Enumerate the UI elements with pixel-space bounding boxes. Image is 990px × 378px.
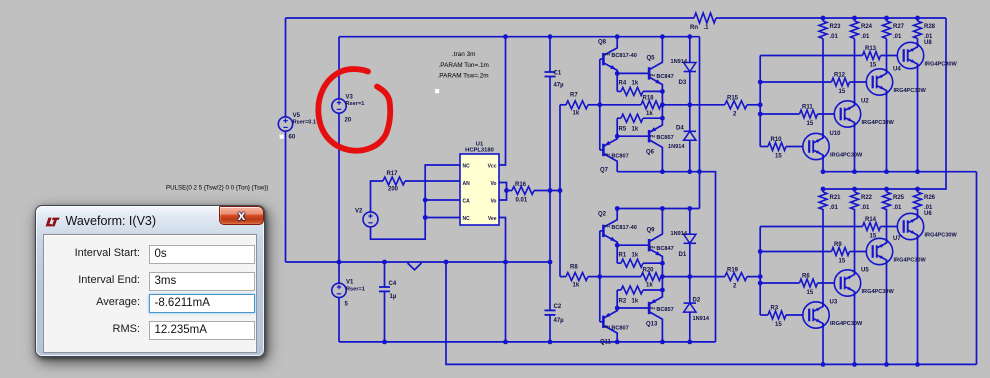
svg-text:15: 15	[807, 290, 814, 296]
label U6 value	[925, 233, 958, 239]
wire Q11 base stub	[600, 321, 604, 323]
wire emitter U4	[886, 91, 888, 172]
junction mid rail / drop	[444, 260, 449, 265]
resistor R22	[851, 189, 859, 210]
svg-text:AN: AN	[463, 181, 471, 187]
junction node A	[615, 243, 620, 248]
junction mid rail / Vee	[503, 260, 508, 265]
label D2 value	[693, 316, 710, 322]
label V5 value	[289, 135, 296, 141]
label R19 value	[733, 283, 737, 289]
wire collector U7	[886, 209, 888, 243]
label R1	[619, 252, 639, 258]
wire gate lead R11	[818, 113, 835, 115]
pin Vo bottom	[490, 199, 496, 205]
svg-text:1k: 1k	[632, 127, 639, 133]
svg-text:1N914: 1N914	[693, 316, 710, 322]
wire Q7 base stub	[600, 149, 604, 151]
svg-text:1k: 1k	[646, 111, 653, 117]
svg-text:Q9: Q9	[647, 227, 656, 233]
resistor R27	[883, 18, 891, 39]
svg-text:ᴾᴴ BC847: ᴾᴴ BC847	[650, 245, 674, 252]
svg-text:1k: 1k	[632, 252, 639, 258]
svg-text:15: 15	[870, 63, 877, 69]
svg-text:Vcc: Vcc	[488, 164, 497, 170]
label V2 pulse value	[166, 185, 269, 192]
label C2	[554, 304, 562, 310]
wire upper emitter rail	[823, 171, 977, 173]
wire collector U10	[822, 39, 824, 139]
resistor R9	[832, 248, 850, 256]
wire lower cluster rail	[617, 208, 699, 210]
junction Vcc rail	[503, 34, 508, 39]
wire gate lead R13	[881, 55, 898, 57]
label D2	[693, 297, 701, 303]
label R12	[834, 73, 846, 79]
voltage source V5	[278, 117, 292, 131]
svg-text:ᴾᴴ BC817-40: ᴾᴴ BC817-40	[605, 52, 637, 59]
label R28 value	[924, 34, 933, 40]
wire R19 lead	[690, 276, 725, 278]
wire collector U2	[854, 39, 856, 106]
wire gate stub R11	[760, 113, 799, 115]
svg-text:15: 15	[839, 259, 846, 265]
wire feed column	[559, 105, 561, 277]
junction rail R21	[821, 187, 826, 192]
junction bottom rail / Vee col	[503, 340, 508, 345]
pin Vee	[488, 216, 497, 222]
junction rail R26	[915, 187, 920, 192]
label U10	[830, 131, 842, 137]
wire V3 column upper	[338, 37, 340, 99]
svg-text:D4: D4	[676, 126, 684, 132]
transistor Q5	[649, 37, 662, 92]
junction main node B	[660, 102, 665, 107]
label Q9 value	[650, 245, 674, 252]
wire collector U6	[917, 209, 919, 218]
label R16	[515, 182, 527, 188]
svg-text:R26: R26	[924, 195, 936, 201]
svg-text:R17: R17	[387, 171, 399, 177]
label R14 value	[870, 234, 877, 240]
wire Vo to R16	[507, 190, 513, 192]
wire Vo joins	[499, 183, 507, 201]
wire CA stub	[425, 199, 460, 201]
junction bottom rail / C2	[548, 340, 553, 345]
junction lower rail emitter	[615, 340, 620, 345]
junction bottom rail diode	[687, 169, 692, 174]
svg-text:U4: U4	[893, 67, 901, 73]
wire left source column upper	[285, 18, 287, 117]
svg-text:.01: .01	[924, 205, 933, 211]
label R25	[893, 195, 905, 201]
capacitor C1	[545, 37, 556, 191]
dialog Waveform I(V3)	[35, 205, 265, 357]
svg-text:5: 5	[345, 302, 349, 308]
label R8 value	[573, 282, 580, 288]
resistor R15	[725, 101, 747, 109]
svg-text:R19: R19	[727, 267, 739, 273]
label Q7	[600, 168, 609, 174]
wire emitter rail drop	[976, 172, 978, 365]
label Q6	[646, 150, 655, 156]
svg-text:IRG4PC30W: IRG4PC30W	[894, 258, 927, 264]
junction diode rail	[687, 206, 692, 211]
label R21	[830, 195, 842, 201]
wire lower bank rail	[823, 188, 946, 190]
svg-text:.01: .01	[924, 34, 933, 40]
junction node B	[660, 89, 665, 94]
label V3	[346, 95, 354, 101]
transistor Q8	[603, 37, 617, 74]
svg-text:15: 15	[775, 154, 782, 160]
svg-text:R5: R5	[619, 127, 627, 133]
label R18	[643, 96, 655, 102]
svg-text:R23: R23	[830, 24, 842, 30]
wire node A to R4	[616, 73, 618, 91]
svg-text:R11: R11	[802, 105, 813, 111]
wire R19 out	[747, 276, 760, 278]
junction diode rail	[687, 34, 692, 39]
label param Ton	[439, 62, 489, 69]
junction lower rail B	[660, 340, 665, 345]
svg-text:IRG4PC30W: IRG4PC30W	[925, 62, 958, 68]
ground	[408, 263, 422, 270]
label C4 value	[390, 294, 397, 300]
junction gate bus R6	[758, 281, 763, 286]
LT logo	[45, 217, 60, 227]
svg-text:ᴾᴴ BC817-40: ᴾᴴ BC817-40	[605, 224, 637, 231]
svg-text:Vo: Vo	[490, 199, 496, 205]
svg-text:R22: R22	[861, 195, 873, 201]
pin CA	[463, 199, 471, 205]
label Q8	[598, 40, 607, 46]
wire V1 bottom lead	[338, 298, 340, 342]
svg-text:ᴾᴴ BC857: ᴾᴴ BC857	[650, 306, 674, 313]
label R13	[865, 46, 877, 52]
svg-text:R1: R1	[619, 252, 627, 258]
svg-text:Q5: Q5	[647, 56, 656, 62]
wire R15 lead	[690, 104, 725, 106]
svg-text:Rser=1: Rser=1	[346, 287, 365, 293]
junction rail R27	[884, 16, 889, 21]
junction collector rail B	[660, 34, 665, 39]
junction emitter U4	[884, 169, 889, 174]
svg-text:U5: U5	[861, 268, 869, 274]
label R15 value	[733, 112, 737, 118]
resistor R10	[768, 143, 786, 151]
label Q9	[647, 227, 656, 233]
label R21 value	[830, 205, 839, 211]
svg-text:U10: U10	[830, 131, 842, 137]
svg-text:.PARAM Tsw=.2m: .PARAM Tsw=.2m	[438, 73, 489, 80]
junction emitter U6	[915, 362, 920, 367]
svg-text:Q8: Q8	[598, 40, 607, 46]
transistor U3	[803, 302, 829, 328]
svg-text:U6: U6	[924, 211, 932, 217]
wire emitter U7	[886, 260, 888, 364]
svg-text:R28: R28	[924, 24, 936, 30]
pin Vcc	[488, 164, 497, 170]
junction emitter U5	[852, 362, 857, 367]
resistor R20	[600, 273, 663, 281]
label R24 value	[861, 34, 870, 40]
resistor R19	[725, 273, 747, 281]
svg-text:Rn: Rn	[690, 25, 698, 31]
label R11	[802, 105, 813, 111]
junction emitter U7	[884, 362, 889, 367]
transistor U10	[803, 133, 829, 159]
junction rail R24	[852, 16, 857, 21]
label Q11 value	[605, 324, 629, 331]
svg-text:1k: 1k	[632, 81, 639, 87]
wire node A to R1	[616, 245, 618, 263]
transistor U2	[834, 101, 860, 127]
junction base column	[597, 274, 602, 279]
wire gate bus	[759, 227, 761, 316]
svg-text:U3: U3	[830, 300, 838, 306]
transistor Q2	[603, 209, 617, 246]
label R22 value	[861, 205, 870, 211]
junction gate bus R11	[758, 112, 763, 117]
svg-text:C4: C4	[389, 281, 397, 287]
label U8 value	[925, 62, 958, 68]
wire R16 out	[534, 190, 560, 192]
junction gate bus R12	[758, 80, 763, 85]
label R7 value	[573, 111, 580, 117]
svg-text:2: 2	[733, 112, 737, 118]
svg-text:U2: U2	[861, 99, 869, 105]
svg-text:NC: NC	[463, 216, 471, 222]
pin NC bottom	[463, 216, 471, 222]
wire node B2 to main	[661, 277, 663, 290]
resistor R18	[600, 101, 663, 109]
wire gate stub R9	[760, 251, 831, 253]
resistor R11	[800, 110, 818, 118]
label V3 value	[345, 118, 352, 124]
junction mid rail / C4	[382, 260, 387, 265]
junction gate bus R9	[758, 249, 763, 254]
label R17 value	[388, 187, 399, 193]
wire gate stub R6	[760, 282, 799, 284]
label V1 value	[345, 302, 349, 308]
wire main to diode col	[662, 104, 689, 106]
wire gate bus	[759, 56, 761, 147]
wire gate stub R3	[760, 314, 768, 316]
label R20	[643, 267, 655, 273]
svg-text:IRG4PC30W: IRG4PC30W	[925, 233, 958, 239]
resistor R13	[863, 52, 881, 60]
label U3 value	[830, 321, 863, 327]
label R7	[570, 93, 578, 99]
resistor R16	[512, 187, 534, 195]
content panel	[43, 234, 257, 353]
transistor U5	[834, 270, 860, 296]
label R2	[619, 298, 639, 304]
resistor R25	[883, 189, 891, 210]
junction main node B	[660, 274, 665, 279]
svg-text:Q2: Q2	[598, 211, 607, 217]
wire cluster bottom rail	[617, 171, 699, 173]
label C1 value	[554, 83, 565, 89]
junction bottom rail B	[660, 169, 665, 174]
svg-text:Rser=1: Rser=1	[346, 101, 365, 107]
svg-text:U7: U7	[893, 236, 901, 242]
junction base column	[597, 102, 602, 107]
junction R16 / C column	[548, 188, 553, 193]
label R17	[387, 171, 399, 177]
wire base column	[599, 59, 601, 150]
svg-text:V3: V3	[346, 95, 354, 101]
label Q6 value	[650, 134, 674, 141]
junction gate bus feed	[758, 102, 763, 107]
pin Vo top	[490, 181, 496, 187]
label R8	[570, 264, 578, 270]
label R10 value	[775, 154, 782, 160]
resistor R7	[566, 101, 588, 109]
label D3 value	[671, 59, 688, 65]
wire collector U8	[917, 39, 919, 48]
node mid rail	[286, 261, 551, 263]
wire Vcc riser	[499, 37, 506, 165]
svg-text:IRG4PC30W: IRG4PC30W	[862, 120, 895, 126]
svg-text:15: 15	[807, 121, 814, 127]
svg-text:0.01: 0.01	[516, 198, 528, 204]
svg-text:Q13: Q13	[646, 321, 658, 327]
label param Tsw	[438, 73, 489, 80]
label U5 value	[862, 289, 895, 295]
junction emitter U2	[852, 169, 857, 174]
resistor R1	[617, 259, 662, 267]
svg-text:IRG4PC30W: IRG4PC30W	[830, 153, 863, 159]
wire emitter U10	[822, 155, 824, 172]
wire R8 to bases	[588, 276, 600, 278]
row RMS	[44, 321, 256, 340]
svg-text:R8: R8	[570, 264, 578, 270]
wire V1 top lead	[338, 262, 340, 283]
row Interval End	[44, 272, 256, 291]
label D1	[679, 252, 687, 258]
junction lower rail diode	[687, 340, 692, 345]
label Q5	[647, 56, 656, 62]
label R23 value	[830, 34, 839, 40]
transistor U7	[866, 238, 892, 264]
svg-text:1µ: 1µ	[390, 294, 397, 300]
diode D3	[684, 37, 696, 105]
label V5	[293, 113, 301, 119]
label D4 value	[668, 144, 685, 150]
resistor Rn	[694, 13, 716, 23]
wire V2 top lead	[371, 181, 384, 212]
label C4	[389, 281, 397, 287]
resistor R28	[914, 18, 922, 39]
svg-text:R15: R15	[727, 96, 739, 102]
junction emitter U10	[821, 169, 826, 174]
label R27	[893, 24, 905, 30]
junction R16 / feed column	[558, 188, 563, 193]
wire emitter U8	[917, 64, 919, 172]
wire right drop to lower bank	[945, 18, 947, 189]
svg-text:U8: U8	[924, 40, 932, 46]
svg-text:.01: .01	[861, 34, 870, 40]
junction bottom rail feed	[697, 169, 702, 174]
svg-text:.PARAM Ton=.1m: .PARAM Ton=.1m	[439, 62, 489, 69]
svg-text:D2: D2	[693, 297, 701, 303]
svg-text:47µ: 47µ	[554, 318, 565, 324]
svg-text:Vo: Vo	[490, 181, 496, 187]
label V3 Rser	[346, 101, 365, 107]
wire gate lead R6	[818, 282, 835, 284]
node cursor mark B	[280, 135, 284, 139]
label Q2	[598, 211, 607, 217]
wire gate lead R14	[881, 226, 898, 228]
svg-text:20: 20	[345, 118, 352, 124]
svg-text:15: 15	[775, 322, 782, 328]
label R26 value	[924, 205, 933, 211]
label V2	[355, 209, 363, 215]
transistor Q6	[649, 118, 662, 172]
svg-text:15: 15	[839, 89, 846, 95]
label Q7 value	[605, 153, 629, 160]
svg-text:R2: R2	[619, 298, 627, 304]
wire Vee drop	[499, 218, 506, 342]
diode D2	[684, 277, 696, 342]
wire emitter U2	[854, 123, 856, 172]
diode D4	[684, 105, 696, 172]
label D1 value	[671, 231, 688, 237]
wire Q5 base wire	[617, 72, 649, 74]
svg-text:60: 60	[289, 135, 296, 141]
wire second rail	[339, 36, 700, 38]
label R11 value	[807, 121, 814, 127]
label C2 value	[554, 318, 565, 324]
label V1	[346, 280, 354, 286]
svg-text:R21: R21	[830, 195, 842, 201]
svg-text:IRG4PC30W: IRG4PC30W	[862, 289, 895, 295]
svg-text:IRG4PC30W: IRG4PC30W	[830, 321, 863, 327]
svg-text:R9: R9	[834, 242, 842, 248]
label R9 value	[839, 259, 846, 265]
node cursor mark A	[435, 89, 439, 93]
label R3	[771, 306, 779, 312]
label R16 value	[516, 198, 528, 204]
svg-text:.01: .01	[861, 205, 870, 211]
svg-text:R16: R16	[515, 182, 527, 188]
svg-text:V2: V2	[355, 209, 363, 215]
label U2 value	[862, 120, 895, 126]
svg-text:.1: .1	[704, 25, 710, 31]
label U7	[893, 236, 901, 242]
label D3	[679, 80, 687, 86]
transistor U6	[897, 213, 923, 239]
label R26	[924, 195, 936, 201]
wire V2 bottom loop	[371, 165, 461, 239]
label R28	[924, 24, 936, 30]
junction collector rail A	[615, 206, 620, 211]
wire main to diode col	[662, 276, 689, 278]
label U6	[924, 211, 932, 217]
label R6 value	[807, 290, 814, 296]
svg-text:PULSE(0 2 5 {Tsw/2} 0 0 {Ton}: PULSE(0 2 5 {Tsw/2} 0 0 {Ton} {Tsw})	[166, 185, 269, 192]
svg-text:R4: R4	[619, 81, 627, 87]
row Interval Start	[44, 245, 256, 264]
voltage source V2	[363, 212, 378, 227]
label U5	[861, 268, 869, 274]
wire R8 row left	[560, 276, 566, 278]
wire NC stub	[425, 217, 460, 219]
op-amp U1 body	[460, 154, 499, 225]
label U4	[893, 67, 901, 73]
